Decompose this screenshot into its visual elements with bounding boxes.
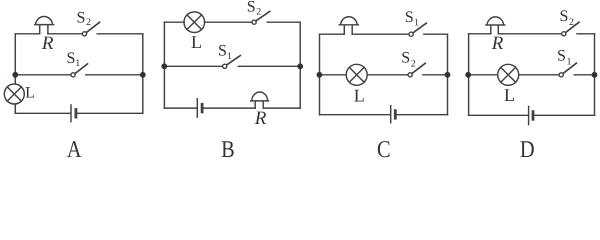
wire D lamp to switch S1 <box>519 74 559 76</box>
circuit D frame: right wire <box>594 34 596 116</box>
wire A bell to switch S2 <box>48 33 82 35</box>
wire B lamp to switch S2 <box>205 21 252 23</box>
svg-text:S: S <box>247 0 256 16</box>
svg-text:2: 2 <box>411 59 416 70</box>
junction node left (circuit C) <box>317 72 323 78</box>
svg-text:R: R <box>41 33 54 54</box>
switch S2 (circuit C, open) <box>408 73 412 77</box>
wire C middle branch left <box>320 74 347 76</box>
svg-text:S: S <box>67 50 76 67</box>
circuit C frame: right wire <box>447 34 449 115</box>
wire A bottom-left <box>15 112 71 114</box>
svg-text:L: L <box>504 85 515 105</box>
svg-text:C: C <box>377 137 391 159</box>
wire D top-left to bell <box>469 33 491 35</box>
bell (circuit C) <box>339 17 358 34</box>
circuit B frame: left wire <box>163 22 165 108</box>
svg-text:2: 2 <box>86 17 91 28</box>
wire C lamp to switch S2 <box>367 74 408 76</box>
svg-text:A: A <box>67 137 82 159</box>
junction node right (circuit C) <box>445 72 451 78</box>
battery (circuit D) <box>528 106 530 124</box>
svg-text:R: R <box>491 33 504 54</box>
junction node right (circuit A) <box>140 72 146 78</box>
svg-text:R: R <box>254 108 267 129</box>
lamp L (circuit B) <box>184 12 205 33</box>
wire B bottom-left to battery <box>164 107 197 109</box>
wire D switch S1 to right <box>574 74 594 76</box>
bell R (circuit D) <box>486 17 505 34</box>
switch S2 (circuit D, open) <box>562 32 566 36</box>
wire D bottom-left to battery <box>469 114 529 116</box>
svg-text:1: 1 <box>227 51 232 62</box>
switch S1 (circuit D, open) <box>559 73 563 77</box>
junction node right (circuit B) <box>297 63 303 69</box>
junction node left (circuit D) <box>465 72 471 78</box>
svg-text:B: B <box>221 137 235 159</box>
wire C bottom-left to battery <box>320 114 391 116</box>
junction node left (circuit A) <box>12 72 18 78</box>
circuit A frame: left wire <box>14 34 16 84</box>
svg-text:2: 2 <box>569 17 574 28</box>
wire C switch S1 to top-right corner <box>424 33 448 35</box>
wire A middle branch left <box>15 74 71 76</box>
battery (circuit A) <box>70 105 72 122</box>
wire B battery to bell <box>202 107 255 109</box>
switch S1 (circuit A, open) <box>71 73 75 77</box>
wire C top-left to bell <box>320 33 345 35</box>
wire A switch S2 to top-right corner <box>97 33 143 35</box>
svg-text:S: S <box>218 43 227 60</box>
wire D bell to switch S2 <box>498 33 561 35</box>
switch S1 (circuit C, open) <box>409 32 413 36</box>
lamp L (circuit A) <box>4 84 24 104</box>
svg-text:D: D <box>520 137 535 159</box>
svg-text:1: 1 <box>414 18 419 29</box>
circuit A frame: left wire lower segment <box>14 104 16 113</box>
svg-text:S: S <box>405 9 414 26</box>
wire C switch S2 to right <box>423 74 448 76</box>
junction node right (circuit D) <box>592 72 598 78</box>
wire C battery to bottom-right <box>395 114 447 116</box>
svg-text:S: S <box>401 50 410 67</box>
switch S2 (circuit B, open) <box>252 20 256 24</box>
wire B middle branch left <box>164 65 222 67</box>
circuit B frame: right wire <box>299 22 301 108</box>
svg-text:2: 2 <box>256 7 261 18</box>
svg-text:1: 1 <box>75 58 80 69</box>
switch S2 (circuit A, open) <box>82 32 86 36</box>
svg-text:S: S <box>560 8 569 25</box>
wire B top-left to lamp <box>164 21 184 23</box>
wire C bell to switch S1 <box>352 33 409 35</box>
svg-text:S: S <box>557 47 566 64</box>
svg-text:S: S <box>77 9 86 26</box>
svg-text:L: L <box>354 86 365 106</box>
wire D battery to bottom-right <box>533 114 594 116</box>
svg-text:L: L <box>191 32 202 52</box>
svg-text:L: L <box>25 85 35 102</box>
battery (circuit C) <box>390 106 392 123</box>
wire D middle branch left <box>469 74 498 76</box>
bell R (circuit B) <box>251 92 269 108</box>
bell R (circuit A) <box>35 16 54 33</box>
junction node left (circuit B) <box>161 63 167 69</box>
circuit C frame: left wire <box>319 34 321 115</box>
wire B middle branch right <box>238 65 300 67</box>
circuit D frame: left wire <box>468 34 470 116</box>
lamp L (circuit D) <box>498 64 519 85</box>
battery (circuit B) <box>196 99 198 118</box>
circuit A frame: right wire <box>142 34 144 114</box>
svg-text:1: 1 <box>567 57 572 68</box>
wire A top-left to bell <box>15 33 39 35</box>
wire B bell to bottom-right corner <box>263 107 300 109</box>
wire A middle branch right <box>86 74 143 76</box>
wire D switch S2 to top-right corner <box>577 33 595 35</box>
lamp L (circuit C) <box>346 64 367 85</box>
wire A battery to bottom-right <box>76 112 143 114</box>
wire B switch S2 to top-right corner <box>267 21 300 23</box>
switch S1 (circuit B, open) <box>223 64 227 68</box>
